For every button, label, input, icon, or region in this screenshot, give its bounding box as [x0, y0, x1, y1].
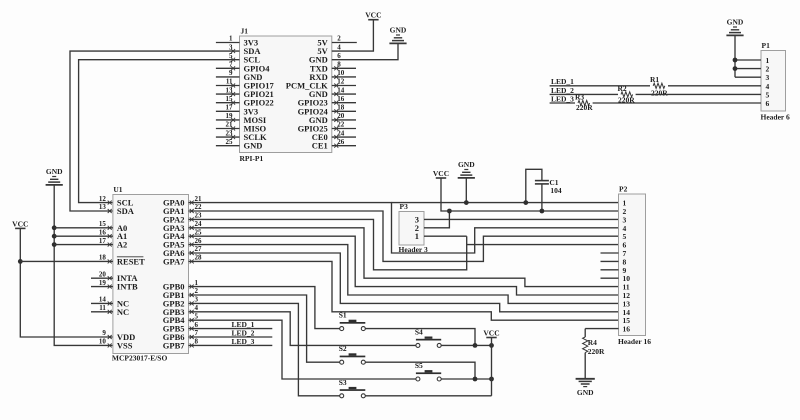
svg-text:25: 25: [226, 138, 234, 146]
wire GPB5 net LED_1: [189, 328, 273, 330]
wire S2 right to S5 row: [365, 362, 475, 379]
wire GPB1 to S2: [189, 295, 340, 362]
junction GND-A1: [52, 234, 57, 239]
svg-text:NC: NC: [117, 307, 129, 317]
wire J1 pin6 to GND: [332, 43, 398, 59]
junction VCC-RESET: [18, 259, 23, 264]
wire LED_3 to R3: [550, 102, 575, 104]
resistor R4: [584, 329, 586, 337]
wire GPA7 to P2 pin15: [189, 261, 619, 320]
wire GPA2 via P3 pin1 to P2 pin6: [189, 219, 467, 269]
junction C1/GND rail: [523, 200, 528, 205]
svg-text:10: 10: [337, 69, 345, 77]
svg-text:27: 27: [195, 245, 203, 253]
svg-text:GND: GND: [390, 26, 407, 35]
junction GND rail: [464, 200, 469, 205]
svg-text:16: 16: [623, 325, 631, 334]
svg-text:14: 14: [337, 86, 345, 94]
svg-text:GND: GND: [244, 141, 263, 151]
svg-text:21: 21: [195, 195, 203, 203]
svg-text:26: 26: [195, 237, 203, 245]
resistor R1: [653, 83, 665, 88]
svg-text:CE1: CE1: [312, 141, 328, 151]
svg-text:20: 20: [337, 112, 345, 120]
svg-text:4: 4: [195, 304, 199, 312]
svg-text:S2: S2: [339, 344, 347, 353]
junction S1/S4: [473, 343, 478, 348]
svg-text:P2: P2: [619, 185, 628, 194]
svg-text:R4: R4: [588, 338, 597, 347]
svg-text:S3: S3: [339, 378, 347, 387]
svg-text:1: 1: [415, 231, 419, 241]
svg-text:24: 24: [195, 220, 203, 228]
svg-text:Header 3: Header 3: [399, 245, 428, 254]
svg-text:12: 12: [99, 195, 107, 203]
resistor R3: [578, 100, 590, 105]
wire GPA3 to P2 pin11: [189, 228, 619, 287]
wire GPB7 net LED_3: [189, 344, 273, 346]
junction P3 pin2 / VCC net: [447, 209, 452, 214]
svg-text:3: 3: [195, 296, 199, 304]
junction C1/VCC rail: [540, 209, 545, 214]
wire S5 right to VCC: [441, 378, 491, 380]
connector P3 box: [399, 212, 424, 246]
svg-text:Header 16: Header 16: [618, 337, 651, 346]
svg-text:9: 9: [102, 329, 106, 337]
svg-text:18: 18: [337, 104, 345, 112]
svg-text:24: 24: [337, 129, 345, 137]
svg-text:4: 4: [337, 43, 341, 51]
resistor R2: [621, 92, 633, 97]
svg-text:P3: P3: [400, 202, 409, 211]
switch S2: [340, 360, 344, 364]
wire C1 bottom to VCC rail: [541, 184, 543, 211]
svg-text:GND: GND: [577, 388, 594, 397]
svg-text:10: 10: [99, 338, 107, 346]
wire GPA5 to P2 pin13: [189, 245, 619, 304]
wire P2 pin16 to R4: [585, 328, 618, 330]
svg-text:LED_3: LED_3: [232, 337, 255, 346]
svg-text:18: 18: [99, 254, 107, 262]
switch S3: [340, 394, 344, 398]
svg-text:Header 6: Header 6: [761, 113, 790, 122]
svg-text:LED_3: LED_3: [551, 94, 574, 103]
junction GND-A0: [52, 225, 57, 230]
wire GND net to P2 pin1: [392, 202, 619, 204]
junction S5/VCC: [489, 377, 494, 382]
svg-text:6: 6: [337, 52, 341, 60]
svg-text:7: 7: [195, 329, 199, 337]
wire GPA4 to P2 pin12: [189, 236, 619, 295]
wire S4 right to VCC: [441, 344, 491, 346]
wire GPB0 to S1: [189, 287, 340, 329]
svg-text:RESET: RESET: [117, 256, 145, 266]
svg-text:MCP23017-E/SO: MCP23017-E/SO: [112, 354, 168, 363]
wire GND stem to pin1 rail: [465, 178, 467, 203]
svg-text:8: 8: [195, 338, 199, 346]
wire P2 pin6: [467, 244, 619, 246]
svg-text:VCC: VCC: [365, 11, 381, 20]
svg-text:GND: GND: [458, 160, 475, 169]
connector J1 (RPI-P1) box: [240, 36, 332, 153]
svg-text:6: 6: [766, 99, 770, 108]
wire R2 to P1 pin5: [636, 93, 761, 95]
svg-text:16: 16: [99, 228, 107, 236]
svg-text:11: 11: [99, 304, 106, 312]
svg-text:INTB: INTB: [117, 282, 138, 292]
wire SCL (J1 pin5 to U1 pin12): [79, 60, 240, 203]
connector P2 box: [619, 194, 646, 336]
capacitor C1: [535, 180, 549, 182]
IC U1 MCP23017 box: [113, 195, 189, 354]
switch S4: [416, 343, 420, 347]
svg-text:A2: A2: [117, 240, 127, 250]
svg-text:SDA: SDA: [117, 206, 135, 216]
wire R1 to P1 pin4: [668, 85, 761, 87]
wire LED_2 to R2: [550, 93, 618, 95]
svg-text:17: 17: [99, 237, 107, 245]
wire LED_1 to R1: [550, 85, 650, 87]
svg-text:19: 19: [99, 279, 107, 287]
junction GND-A2: [52, 242, 57, 247]
junction S4/VCC: [489, 343, 494, 348]
junction GND/P1 pin2: [733, 66, 738, 71]
svg-text:2: 2: [337, 35, 341, 43]
svg-text:GND: GND: [46, 167, 63, 176]
svg-text:15: 15: [99, 220, 107, 228]
wire GND to U1 VSS: [54, 185, 113, 346]
wire VCC to U1 VDD: [20, 228, 113, 337]
svg-text:GPA7: GPA7: [163, 256, 185, 266]
svg-text:1: 1: [195, 279, 199, 287]
svg-text:VCC: VCC: [483, 329, 499, 338]
wire J1 pin4 to VCC: [332, 20, 374, 51]
svg-text:13: 13: [99, 203, 107, 211]
svg-text:28: 28: [195, 254, 203, 262]
svg-text:22: 22: [195, 203, 203, 211]
switch S5: [416, 377, 420, 381]
svg-text:2: 2: [195, 287, 199, 295]
svg-text:GND: GND: [727, 18, 744, 27]
svg-text:26: 26: [337, 138, 345, 146]
svg-text:R2: R2: [618, 84, 627, 93]
wire GPA0 to P2 pin4: [189, 203, 619, 253]
svg-text:P1: P1: [762, 41, 771, 50]
svg-text:220R: 220R: [588, 347, 605, 356]
svg-text:23: 23: [195, 212, 203, 220]
wire SDA (J1 pin3 to U1 pin13): [70, 51, 240, 211]
svg-text:R1: R1: [650, 75, 659, 84]
switch S1: [340, 327, 344, 331]
wire VCC rail to P2 pin2: [441, 178, 619, 211]
svg-text:220R: 220R: [651, 89, 668, 98]
svg-text:VSS: VSS: [117, 340, 133, 350]
svg-text:14: 14: [99, 296, 107, 304]
wire S3 right to VCC stem: [365, 395, 491, 397]
wire GPB3 to S4: [189, 312, 416, 346]
wire VCC stem (buttons): [491, 338, 493, 396]
svg-text:220R: 220R: [576, 103, 593, 112]
wire GPB4 to S5: [189, 320, 416, 379]
svg-text:VCC: VCC: [12, 219, 28, 228]
wire R3 to P1 pin6: [593, 102, 761, 104]
ground GND (R4): [576, 378, 595, 380]
wire GND to P1 pins 1-3: [734, 35, 736, 77]
svg-text:J1: J1: [241, 27, 249, 36]
svg-text:U1: U1: [113, 185, 122, 194]
svg-text:6: 6: [195, 321, 199, 329]
wire S1 right to S4 row: [365, 329, 475, 346]
svg-text:25: 25: [195, 228, 203, 236]
svg-text:VCC: VCC: [433, 169, 449, 178]
svg-text:5: 5: [195, 312, 199, 320]
svg-text:17: 17: [226, 104, 234, 112]
svg-text:22: 22: [337, 121, 345, 129]
wire GPB6 net LED_2: [189, 336, 273, 338]
wire GPB2 to S3: [189, 303, 340, 395]
svg-text:16: 16: [337, 95, 345, 103]
connector P1 box: [761, 51, 786, 112]
svg-text:RPI-P1: RPI-P1: [240, 154, 264, 163]
junction S2/S5: [473, 377, 478, 382]
svg-text:GPB7: GPB7: [163, 340, 185, 350]
junction GND/P1 pin1: [733, 58, 738, 63]
wire C1 top to GND rail: [526, 169, 542, 202]
svg-text:20: 20: [99, 270, 107, 278]
svg-text:S1: S1: [339, 311, 347, 320]
svg-text:1: 1: [229, 35, 233, 43]
svg-text:12: 12: [337, 78, 345, 86]
wire GPA6 to P2 pin14: [189, 253, 619, 312]
svg-text:8: 8: [337, 61, 341, 69]
svg-text:9: 9: [229, 69, 233, 77]
wire GPA1 to P2 pin5: [189, 211, 619, 261]
svg-text:R3: R3: [575, 92, 584, 101]
svg-text:104: 104: [550, 186, 562, 195]
